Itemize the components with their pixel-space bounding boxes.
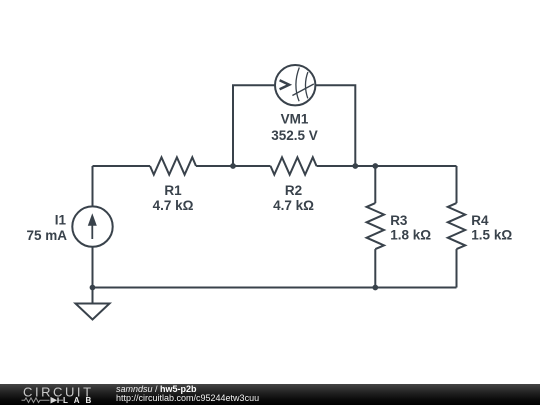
svg-text:R3: R3 <box>390 213 408 228</box>
footer credit line <box>116 384 197 394</box>
CircuitLab logo resistor+diode glyph <box>22 398 64 403</box>
voltmeter VM1 polarity chevron <box>280 80 290 89</box>
voltmeter VM1 meter glyph (> arcs and needle) <box>292 68 313 102</box>
svg-text:1.8 kΩ: 1.8 kΩ <box>390 228 431 243</box>
wire: VM1 left branch (junction A up and right to meter) <box>233 85 275 166</box>
svg-text:1.5 kΩ: 1.5 kΩ <box>471 228 512 243</box>
resistor R3 <box>367 203 384 249</box>
svg-text:4.7 kΩ: 4.7 kΩ <box>153 198 194 213</box>
resistor R1 <box>150 157 196 174</box>
current source I1 circle <box>72 206 112 246</box>
svg-text:R1: R1 <box>164 183 182 198</box>
node junction dot B (VM right) <box>352 163 358 169</box>
resistor R4 <box>448 203 465 249</box>
svg-text:I1: I1 <box>55 212 67 227</box>
wire: R3 branch bottom lead <box>374 249 376 287</box>
wire: left rail top (to I1 top terminal) <box>92 166 94 206</box>
wire: R4 branch bottom lead <box>456 249 458 287</box>
wire: ground stub <box>92 288 94 304</box>
resistor R2 <box>271 157 317 174</box>
current source I1 arrow <box>88 213 97 239</box>
svg-text:VM1: VM1 <box>281 112 309 127</box>
wire: bottom horizontal rail <box>93 287 457 289</box>
node junction dot A (VM left / R1-R2) <box>230 163 236 169</box>
node junction dot C (R3 top) <box>372 163 378 169</box>
voltmeter VM1 circle <box>275 65 315 105</box>
wire: I1 bottom terminal to bottom rail <box>92 247 94 288</box>
wire: junction A to R2 <box>233 165 271 167</box>
svg-text:R4: R4 <box>471 213 489 228</box>
svg-text:LAB: LAB <box>63 396 97 405</box>
node junction dot D (ground / bottom rail) <box>90 285 96 291</box>
footer url line <box>116 393 259 403</box>
svg-text:R2: R2 <box>285 183 302 198</box>
node junction dot E (R3 bottom) <box>372 285 378 291</box>
wire: VM1 right branch (meter to junction B) <box>316 85 356 166</box>
svg-text:352.5 V: 352.5 V <box>271 128 318 143</box>
svg-text:4.7 kΩ: 4.7 kΩ <box>273 198 314 213</box>
svg-text:75 mA: 75 mA <box>26 228 67 243</box>
footer bar <box>0 384 540 405</box>
wire: R1 right to junction A <box>196 165 233 167</box>
wire: top horizontal left segment (left rail to R1) <box>93 165 151 167</box>
wire: R4 branch top lead <box>456 166 458 203</box>
wire: R2 right through junctions to top-right corner <box>317 165 457 167</box>
ground <box>76 304 110 320</box>
wire: R3 branch top lead <box>374 166 376 203</box>
